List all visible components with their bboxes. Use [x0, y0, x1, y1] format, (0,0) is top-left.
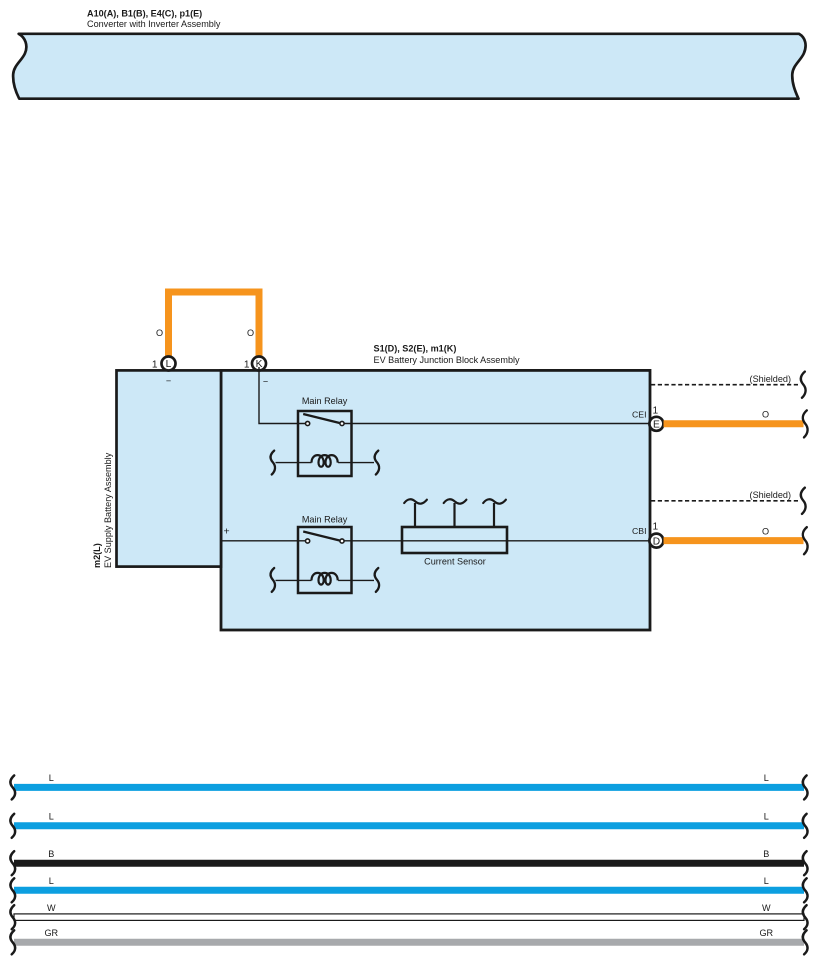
svg-text:EV Battery Junction Block Asse: EV Battery Junction Block Assembly	[374, 355, 521, 365]
svg-text:B: B	[48, 849, 54, 859]
svg-text:−: −	[263, 377, 268, 387]
bottom wire 3: B	[14, 860, 804, 867]
EV supply battery assembly box m2(L)	[117, 370, 222, 566]
CEI wire right break	[803, 410, 808, 437]
svg-text:(Shielded): (Shielded)	[750, 374, 791, 384]
wire 6 left break	[10, 930, 15, 954]
converter with inverter assembly band	[13, 34, 805, 99]
main relay 1 switch blade	[303, 414, 339, 423]
main relay 1 coil wire right break	[375, 451, 379, 475]
shielded line upper right break	[801, 372, 806, 398]
svg-text:W: W	[762, 903, 771, 913]
svg-text:Main Relay: Main Relay	[302, 396, 348, 406]
svg-text:L: L	[166, 359, 172, 370]
shielded ground line (upper, dashed)	[651, 384, 799, 386]
wire 6 right break	[803, 930, 808, 954]
wire 4 left break	[10, 878, 15, 902]
main relay 2 switch contact right	[340, 539, 344, 543]
svg-text:L: L	[764, 812, 769, 822]
main relay 1 coil	[312, 455, 338, 467]
bottom wire 2: L	[14, 822, 804, 829]
svg-text:E: E	[653, 420, 660, 431]
main relay 1 switch contact left	[306, 421, 310, 425]
main relay 1 coil wire (right segment)	[338, 462, 374, 464]
wire 5 left break	[10, 905, 15, 929]
svg-text:GR: GR	[759, 928, 773, 938]
shielded line lower right break	[801, 488, 806, 514]
positive bus wire from battery to main relay 2 input	[221, 540, 306, 542]
main relay 2 coil wire left break	[271, 568, 275, 592]
main relay 1 switch contact right	[340, 421, 344, 425]
svg-text:Main Relay: Main Relay	[302, 515, 348, 525]
svg-text:Converter with Inverter Assemb: Converter with Inverter Assembly	[87, 19, 221, 29]
svg-text:EV Supply Battery Assembly: EV Supply Battery Assembly	[103, 452, 113, 568]
current sensor probe tilde 3	[483, 499, 506, 503]
wire 4 right break	[803, 878, 808, 902]
bottom wire 6: GR	[14, 939, 804, 946]
bottom wire 1: L	[14, 784, 804, 791]
svg-text:1: 1	[244, 359, 250, 370]
svg-text:L: L	[49, 812, 54, 822]
svg-text:−: −	[166, 376, 171, 386]
svg-text:1: 1	[152, 359, 158, 370]
wire O from terminal E (CEI output)	[664, 420, 804, 427]
svg-text:m2(L): m2(L)	[92, 543, 102, 568]
wire from main relay 1 output to terminal E (CEI)	[344, 423, 651, 425]
svg-text:GR: GR	[44, 928, 58, 938]
svg-text:L: L	[764, 876, 769, 886]
svg-text:(Shielded): (Shielded)	[750, 490, 791, 500]
main relay 2 coil wire (right segment)	[338, 579, 374, 581]
svg-text:B: B	[763, 849, 769, 859]
wire 1 left break	[10, 775, 15, 799]
svg-text:O: O	[156, 328, 163, 338]
current sensor probe lead 3	[493, 503, 495, 527]
bottom wire 5: W (white with outline)	[14, 914, 804, 921]
EV battery junction block assembly box S1(D), S2(E), m1(K)	[221, 370, 650, 630]
current sensor probe tilde 1	[404, 499, 427, 503]
svg-text:1: 1	[653, 405, 659, 416]
svg-text:L: L	[49, 876, 54, 886]
svg-text:O: O	[247, 328, 254, 338]
svg-text:1: 1	[653, 521, 659, 532]
svg-text:L: L	[764, 773, 769, 783]
svg-text:W: W	[47, 903, 56, 913]
svg-text:O: O	[762, 410, 769, 420]
svg-text:L: L	[49, 773, 54, 783]
wire O jumper from terminal L to terminal K	[169, 292, 260, 358]
svg-text:CBI: CBI	[632, 526, 646, 536]
bottom wire 4: L	[14, 887, 804, 894]
svg-text:Current Sensor: Current Sensor	[424, 557, 486, 567]
svg-text:+: +	[224, 526, 230, 538]
svg-text:D: D	[653, 536, 660, 547]
current sensor box	[402, 527, 507, 553]
current sensor probe lead 2	[453, 503, 455, 527]
main relay 2 switch contact left	[306, 539, 310, 543]
svg-text:A10(A), B1(B), E4(C), p1(E): A10(A), B1(B), E4(C), p1(E)	[87, 9, 202, 19]
terminal D	[649, 534, 663, 548]
svg-text:O: O	[762, 526, 769, 536]
terminal E	[649, 417, 663, 431]
main relay 1 coil wire (left segment)	[276, 462, 312, 464]
svg-text:CEI: CEI	[632, 410, 646, 420]
main relay 2 coil wire right break	[375, 568, 379, 592]
wire 1 right break	[803, 775, 808, 799]
svg-text:S1(D), S2(E), m1(K): S1(D), S2(E), m1(K)	[374, 344, 457, 354]
shielded ground line (lower, dashed)	[651, 500, 799, 502]
wire 5 right break	[803, 905, 808, 929]
terminal K	[252, 357, 266, 371]
wire 2 left break	[10, 814, 15, 838]
main relay 1 coil wire left break	[271, 451, 275, 475]
main relay 2 switch blade	[303, 532, 339, 541]
wire 2 right break	[803, 814, 808, 838]
CBI wire right break	[803, 527, 808, 554]
wire 3 right break	[803, 851, 808, 875]
wire from main relay 2 output through current sensor to terminal D (CBI)	[344, 540, 651, 542]
main relay 1 box	[298, 411, 352, 476]
terminal L	[162, 357, 176, 371]
wire 3 left break	[10, 851, 15, 875]
current sensor probe tilde 2	[444, 499, 467, 503]
main relay 2 box	[298, 527, 352, 593]
main relay 2 coil wire (left segment)	[276, 579, 312, 581]
main relay 2 coil	[312, 573, 338, 585]
wire O from terminal D (CBI output)	[664, 537, 804, 544]
wire from terminal K down to main relay 1 input	[259, 367, 306, 424]
current sensor probe lead 1	[414, 503, 416, 527]
